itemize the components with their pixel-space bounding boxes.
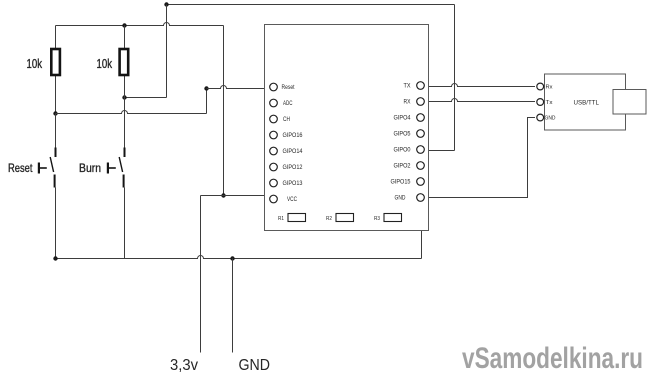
svg-text:GIPO16: GIPO16 bbox=[283, 133, 304, 139]
wire: reset net into Reset pin with hop over rail drop bbox=[207, 86, 270, 89]
pin Tx (USB/TTL 2) bbox=[537, 99, 553, 106]
pin GIPO13 (U1 left 7) bbox=[270, 179, 303, 187]
svg-text:CH: CH bbox=[283, 117, 290, 123]
wire: module TX to USB/TTL RX with hop over GPIO0 riser bbox=[425, 84, 536, 87]
pin GND (USB/TTL 3) bbox=[537, 114, 556, 121]
wire: reset net horizontal with hop over burn line bbox=[56, 111, 207, 114]
svg-text:RX: RX bbox=[404, 100, 411, 106]
switch SW2 Burn (contacts, lever, actuator) bbox=[108, 148, 125, 188]
svg-text:TX: TX bbox=[404, 84, 411, 90]
svg-text:R2: R2 bbox=[326, 216, 332, 222]
pin Rx (USB/TTL 1) bbox=[537, 83, 553, 90]
junction dot: reset node at R1 bottom bbox=[53, 111, 57, 115]
svg-text:GIPO15: GIPO15 bbox=[391, 180, 412, 186]
switch SW1 Reset (contacts, lever, actuator) bbox=[39, 148, 56, 188]
wire: 3.3V rail with hop over left riser bbox=[56, 23, 224, 26]
svg-text:10k: 10k bbox=[27, 56, 43, 71]
svg-text:GIPO13: GIPO13 bbox=[283, 181, 304, 187]
wire: module RX to USB/TTL TX with hop over GPIO0 riser bbox=[425, 99, 536, 102]
resistor R3 (SMD inside module) bbox=[374, 214, 402, 223]
node A: junction dot on top rail bbox=[164, 2, 168, 6]
svg-text:GIPO14: GIPO14 bbox=[283, 149, 304, 155]
junction dot: on VCC feed bbox=[221, 193, 225, 197]
wire: reset net riser bbox=[206, 89, 208, 114]
wire: ground rail riser to module GND pin bbox=[421, 202, 423, 259]
svg-text:USB/TTL: USB/TTL bbox=[574, 100, 600, 107]
svg-text:ADC: ADC bbox=[283, 101, 293, 107]
svg-text:R1: R1 bbox=[278, 216, 284, 222]
wire: GPIO0 riser (right vertical) bbox=[454, 5, 456, 151]
wire: ground rail with hop over 3.3V drop bbox=[56, 256, 422, 259]
svg-text:3,3v: 3,3v bbox=[170, 357, 198, 374]
wire: GIPO0 pin stub bbox=[425, 150, 455, 152]
wire: VCC feed into pin bbox=[201, 195, 271, 197]
pin GIPO12 (U1 left 6) bbox=[270, 163, 303, 171]
module U1 ESP8266 box bbox=[265, 25, 429, 231]
junction dot: R2 top on 3.3V rail bbox=[122, 23, 126, 27]
wire: 3.3V supply drop to label (hop is on ground rail) bbox=[200, 196, 202, 353]
wire: left riser from node A down to resistor R2 bottom node bbox=[166, 5, 168, 98]
svg-text:vSamodelkina.ru: vSamodelkina.ru bbox=[462, 342, 643, 375]
wire: reset node down to Reset switch bbox=[55, 114, 57, 148]
wire: GND stub down to label bbox=[232, 259, 234, 353]
pin GIPO4 (U1 right 3) bbox=[394, 114, 425, 122]
svg-text:Rx: Rx bbox=[546, 85, 553, 91]
svg-text:GIPO4: GIPO4 bbox=[394, 116, 412, 122]
wire: R2 top lead bbox=[124, 26, 126, 50]
resistor R2 10k body bbox=[120, 49, 129, 75]
svg-text:Reset: Reset bbox=[282, 85, 295, 91]
resistor R2 (SMD inside module) bbox=[326, 214, 354, 223]
svg-text:GND: GND bbox=[239, 357, 271, 374]
svg-text:10k: 10k bbox=[97, 56, 113, 71]
wire: R1 bottom lead bbox=[55, 75, 57, 114]
pin GIPO15 (U1 right 7) bbox=[391, 178, 425, 186]
junction dot: ground rail GND stub bbox=[230, 256, 234, 260]
pin RX (U1 right 2) bbox=[404, 98, 425, 106]
svg-text:Tx: Tx bbox=[546, 100, 553, 106]
pin GIPO14 (U1 left 5) bbox=[270, 147, 303, 155]
pin Reset (U1 left 1) bbox=[270, 83, 295, 91]
svg-text:GND: GND bbox=[545, 116, 556, 122]
pin GIPO16 (U1 left 4) bbox=[270, 131, 303, 139]
wire: 3.3V rail drop to VCC feed bbox=[223, 26, 225, 196]
svg-text:GND: GND bbox=[395, 196, 407, 202]
pin ADC (U1 left 2) bbox=[270, 99, 293, 107]
resistor R1 10k body bbox=[51, 49, 60, 75]
junction dot: ground rail left end bbox=[53, 256, 57, 260]
pin TX (U1 right 1) bbox=[404, 82, 425, 90]
svg-text:VCC: VCC bbox=[287, 197, 298, 203]
pin GIPO0 (U1 right 5) bbox=[394, 146, 425, 154]
wire: R2 bottom lead bbox=[124, 75, 126, 98]
junction dot: R2 bottom node bbox=[122, 95, 126, 99]
svg-text:Burn: Burn bbox=[79, 161, 101, 175]
wire: top rail from node A to GPIO0 riser bbox=[167, 4, 455, 6]
svg-text:R3: R3 bbox=[374, 216, 380, 222]
USB connector plug bbox=[613, 90, 646, 115]
svg-text:GIPO2: GIPO2 bbox=[394, 164, 412, 170]
svg-text:Reset: Reset bbox=[8, 161, 33, 175]
wire: burn line from R2 bottom node down to switch bbox=[124, 98, 126, 148]
wire: below Reset switch to ground rail bbox=[55, 188, 57, 259]
pin VCC (U1 left 8) bbox=[270, 195, 298, 203]
pin CH (U1 left 3) bbox=[270, 115, 290, 123]
wire: module GND to USB/TTL GND (right then up then right) bbox=[425, 118, 536, 198]
svg-text:GIPO0: GIPO0 bbox=[394, 148, 412, 154]
svg-text:GIPO12: GIPO12 bbox=[283, 165, 304, 171]
pin GND (U1 right 8) bbox=[395, 194, 425, 202]
pin GIPO5 (U1 right 4) bbox=[394, 130, 425, 138]
wire: below Burn switch to ground rail bbox=[124, 188, 126, 259]
wire: R1 top lead bbox=[55, 26, 57, 50]
pin GIPO2 (U1 right 6) bbox=[394, 162, 425, 170]
junction dot: reset net corner bbox=[204, 86, 208, 90]
USB/TTL adapter box bbox=[545, 74, 626, 130]
wire: horizontal from R2 bottom node to left riser bbox=[125, 97, 167, 99]
svg-text:GIPO5: GIPO5 bbox=[394, 132, 412, 138]
resistor R1 (SMD inside module) bbox=[278, 214, 306, 223]
